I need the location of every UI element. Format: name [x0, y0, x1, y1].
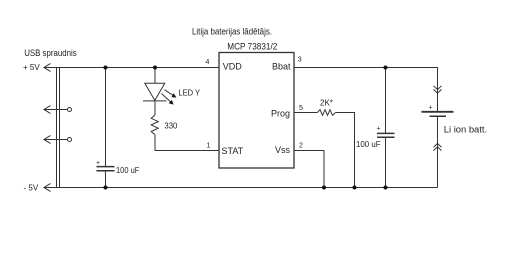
- svg-text:Prog: Prog: [271, 108, 290, 118]
- LED D1 light arrow 1: [165, 90, 174, 96]
- USB connector J1 body line 2: [59, 68, 61, 188]
- svg-text:VDD: VDD: [223, 62, 243, 72]
- junction node -5V / C1: [104, 186, 108, 190]
- wire Vss pin 2 to bottom rail: [294, 151, 324, 188]
- battery BT1 bottom lead wire: [437, 116, 439, 187]
- LED D1 anode wire: [154, 68, 156, 84]
- junction node -5V / Vss: [322, 186, 326, 190]
- svg-text:100 uF: 100 uF: [116, 165, 139, 175]
- USB data pin 1 arrow: [44, 106, 51, 114]
- junction node +5V / C1: [104, 66, 108, 70]
- battery BT1 negative plate: [430, 115, 447, 117]
- svg-text:Li ion batt.: Li ion batt.: [444, 124, 487, 134]
- USB connector J1 body line 1: [56, 68, 58, 188]
- LED D1 light arrow 2: [162, 94, 171, 102]
- USB pin +5V arrow: [44, 64, 51, 72]
- capacitor C2 bottom lead wire: [385, 137, 387, 187]
- capacitor C1 top lead wire: [105, 68, 107, 167]
- LED D1 cathode bar: [143, 100, 167, 102]
- svg-text:MCP 73831/2: MCP 73831/2: [227, 42, 277, 52]
- capacitor C1 plates: [97, 167, 115, 171]
- wire R2 to bottom rail: [336, 113, 355, 188]
- svg-text:4: 4: [206, 59, 210, 66]
- resistor R1 330 zigzag: [151, 115, 158, 135]
- battery BT1 connector chevron down 1: [434, 86, 442, 90]
- wire Bbat pin 3 rail: [294, 68, 438, 112]
- svg-text:+ 5V: + 5V: [23, 63, 40, 72]
- junction node -5V / C2: [384, 186, 388, 190]
- IC U1 MCP 73831/2 box: [219, 53, 294, 169]
- capacitor C2 top lead wire: [385, 68, 387, 134]
- svg-text:LED Y: LED Y: [178, 87, 200, 97]
- capacitor C2 plates: [377, 133, 395, 137]
- LED light arrow 1 head: [172, 93, 177, 97]
- svg-text:- 5V: - 5V: [24, 183, 39, 192]
- svg-text:Litija baterijas lādētājs.: Litija baterijas lādētājs.: [192, 27, 272, 37]
- svg-text:3: 3: [298, 57, 302, 64]
- battery BT1 connector chevron up 2: [434, 147, 442, 151]
- svg-text:STAT: STAT: [222, 146, 244, 156]
- svg-text:+: +: [377, 126, 381, 133]
- USB data pin 1 terminal circle: [68, 108, 72, 112]
- svg-text:+: +: [429, 105, 433, 112]
- USB data pin 2 wire: [44, 139, 68, 141]
- USB pin -5V arrow: [44, 184, 51, 192]
- LED D1 triangle: [145, 83, 165, 100]
- wire Prog pin 5 lead: [294, 112, 317, 114]
- svg-text:Bbat: Bbat: [272, 62, 291, 72]
- wire resistor to STAT pin 1: [155, 135, 219, 151]
- battery BT1 connector chevron up 1: [434, 143, 442, 147]
- USB data pin 1 wire: [44, 109, 68, 111]
- svg-text:100 uF: 100 uF: [356, 139, 381, 149]
- svg-text:330: 330: [164, 121, 177, 131]
- svg-text:2K*: 2K*: [320, 98, 333, 107]
- USB data pin 2 arrow: [44, 136, 51, 144]
- battery BT1 connector chevron down 2: [434, 89, 442, 93]
- resistor R2 2K zigzag: [317, 110, 335, 116]
- LED light arrow 2 head: [169, 100, 174, 105]
- wire +5V top rail: [44, 67, 219, 69]
- wire LED to resistor: [154, 101, 156, 115]
- svg-text:5: 5: [299, 105, 303, 112]
- USB data pin 2 terminal circle: [68, 138, 72, 142]
- svg-text:Vss: Vss: [275, 145, 291, 155]
- junction node -5V / R2: [353, 186, 357, 190]
- wire -5V bottom rail: [44, 187, 438, 189]
- svg-text:+: +: [96, 160, 100, 167]
- svg-text:1: 1: [207, 143, 211, 150]
- svg-text:2: 2: [299, 142, 303, 149]
- capacitor C1 bottom lead wire: [105, 171, 107, 188]
- junction node Bbat / C2: [384, 66, 388, 70]
- svg-text:USB spraudnis: USB spraudnis: [24, 48, 77, 58]
- battery BT1 positive plate: [422, 111, 454, 113]
- junction node +5V / LED: [153, 66, 157, 70]
